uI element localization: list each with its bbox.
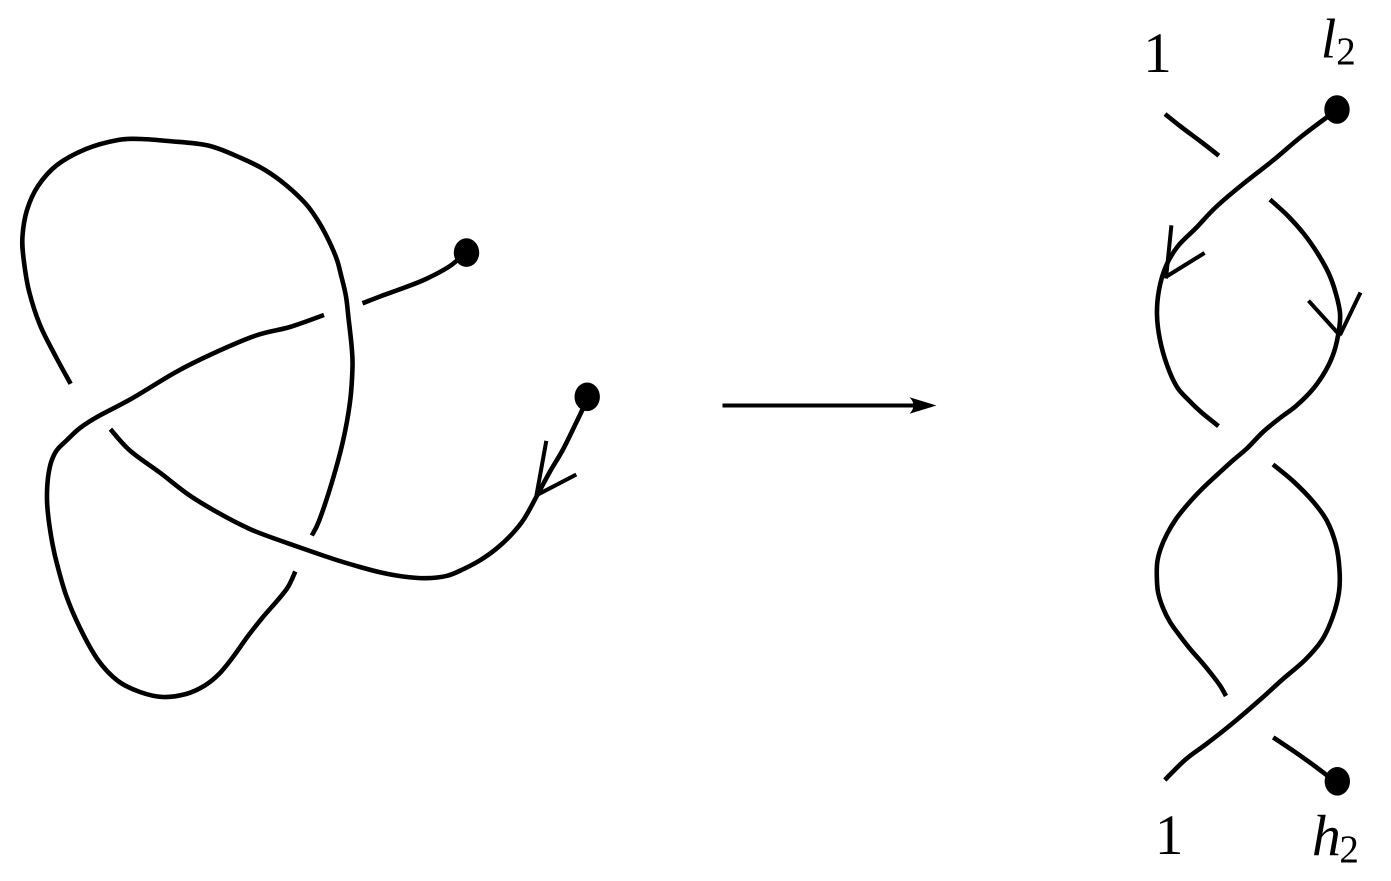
knot: lower-left loop strand: [47, 315, 324, 697]
braid: l2 endpoint dot: [1324, 95, 1349, 124]
braid: strand from l2 dot, part 1: [1157, 112, 1334, 426]
braid: strand 1, part 2: [1157, 200, 1340, 697]
braid: arrowhead left strand: [1166, 225, 1205, 278]
braid: strand 1, part 3: [1273, 737, 1333, 780]
svg-text:2: 2: [1336, 30, 1356, 73]
braid: strand from l2 dot, part 2: [1165, 465, 1340, 781]
middle arrow: [723, 404, 925, 408]
knot: upper endpoint dot: [454, 238, 479, 267]
knot: strand from upper dot: [363, 254, 465, 303]
knot: orientation arrowhead: [536, 441, 576, 496]
svg-text:2: 2: [1339, 828, 1359, 871]
braid: h2 endpoint dot: [1325, 767, 1350, 796]
braid: arrowhead right strand: [1309, 293, 1361, 337]
knot: lower endpoint dot: [575, 383, 600, 412]
svg-text:h: h: [1312, 803, 1341, 868]
svg-text:l: l: [1321, 9, 1337, 71]
knot: big top loop strand: [22, 139, 352, 536]
braid: strand 1, part 1: [1165, 114, 1219, 156]
svg-text:1: 1: [1155, 804, 1184, 867]
svg-text:1: 1: [1143, 22, 1172, 85]
knot: long lower strand to right dot: [110, 400, 587, 578]
